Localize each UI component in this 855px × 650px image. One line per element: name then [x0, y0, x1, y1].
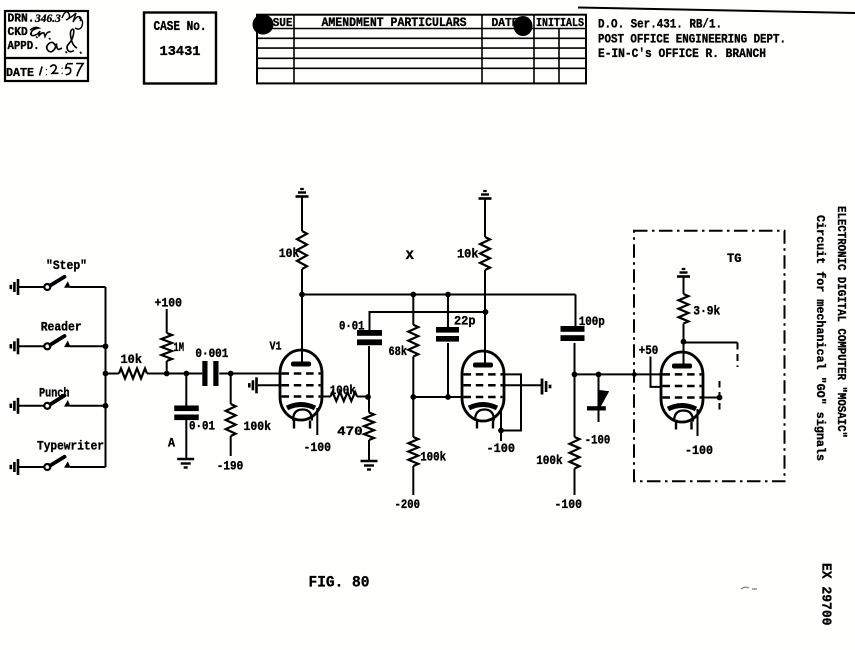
junction rail2 end — [483, 309, 489, 315]
svg-text:ELECTRONIC DIGITAL COMPUTER "M: ELECTRONIC DIGITAL COMPUTER "MOSAIC" — [834, 206, 848, 438]
wire cap to grid node — [219, 373, 280, 375]
wire marker to 10k — [301, 196, 303, 231]
title block DRN/CKD/APPD/DATE box — [5, 11, 88, 81]
svg-text:0·001: 0·001 — [195, 347, 228, 361]
resistor 68k — [408, 325, 418, 357]
junction grid leak — [228, 371, 234, 377]
V3 grid 1 — [663, 373, 702, 376]
wire 100k to -100 — [574, 469, 576, 496]
wire 1M to node — [166, 361, 168, 374]
svg-text:100k: 100k — [420, 451, 446, 465]
dashed test lead — [719, 381, 721, 414]
junction cathode network — [365, 394, 371, 400]
svg-text:Punch: Punch — [39, 387, 70, 401]
V1 grid2 point symbol — [248, 383, 251, 387]
switch Reader: fixed contact — [64, 341, 71, 348]
V1 heater — [293, 410, 312, 421]
svg-text:D.O. Ser.431. RB/1.: D.O. Ser.431. RB/1. — [598, 17, 722, 32]
switch Reader: input point symbol — [10, 344, 13, 348]
wire junction down to 100k — [412, 397, 414, 437]
V1 grid 3 — [282, 395, 321, 398]
svg-text:68k: 68k — [389, 345, 408, 359]
V3 cathode lead — [697, 409, 699, 436]
wire node down to 100k — [574, 374, 576, 437]
svg-text:CASE No.: CASE No. — [154, 20, 207, 35]
svg-text:+50: +50 — [639, 344, 659, 358]
junction bus/Reader — [103, 343, 109, 349]
wire 10k to node — [147, 373, 167, 375]
svg-text:"Step": "Step" — [46, 259, 87, 273]
handwritten CKD initials — [30, 27, 51, 39]
junction 22p bottom — [445, 394, 451, 400]
V3 grid 2 — [663, 385, 702, 388]
wire 10k down to V2 anode — [484, 270, 486, 364]
resistor 1M — [161, 333, 172, 361]
wire 22p to grid node — [447, 343, 449, 397]
V2 cathode — [469, 405, 497, 409]
V1 grid 2 — [282, 384, 321, 387]
V3 grid 3 — [663, 396, 702, 399]
wire node to 470 — [368, 397, 370, 413]
wire R to -190 — [230, 436, 232, 456]
ink blob over DATE — [514, 16, 533, 36]
grid wire to V2 — [413, 396, 463, 398]
svg-text:+100: +100 — [155, 297, 183, 311]
ink blob over ISSUE — [253, 15, 274, 35]
svg-text:EX 29700: EX 29700 — [818, 563, 834, 626]
svg-text:-100: -100 — [685, 444, 713, 458]
valve V1 envelope and anode — [280, 350, 322, 420]
V1 cathode — [287, 405, 315, 409]
capacitor 22p — [436, 327, 459, 333]
handwritten APPD signature a.b. — [47, 29, 82, 53]
valve V2 envelope and anode — [462, 351, 504, 421]
junction 1M/main — [164, 371, 170, 377]
rail1 corner down to 100p — [575, 295, 577, 328]
junction output crosses TG border — [632, 372, 637, 377]
V2 grid2 point symbol — [541, 379, 544, 395]
wire C 0.01 to earth — [185, 420, 187, 459]
V1 grid 1 — [282, 372, 321, 375]
svg-text:100k: 100k — [536, 454, 563, 468]
svg-text:0·01: 0·01 — [339, 320, 365, 334]
switch Reader: wire to pivot — [18, 345, 44, 347]
svg-text:3·9k: 3·9k — [693, 305, 720, 319]
switch Step: pivot circle — [44, 284, 50, 290]
wire 68k to grid line — [412, 357, 414, 398]
amendment table — [257, 15, 586, 84]
resistor 470 — [364, 413, 374, 441]
V2 cathode lead — [500, 408, 502, 441]
case number box — [144, 13, 216, 84]
top right slanted rule — [578, 8, 855, 14]
switch Typewriter: fixed contact — [64, 461, 71, 468]
valve V3 envelope and anode — [661, 352, 703, 422]
switch Punch: pivot circle — [44, 403, 50, 409]
HT marker above V1 anode resistor — [296, 195, 309, 198]
capacitor 100p — [561, 326, 585, 332]
junction V3 anode — [681, 339, 687, 345]
svg-text:346.3: 346.3 — [34, 13, 61, 25]
wire rail to 22p — [447, 295, 449, 328]
svg-text:V1: V1 — [270, 340, 282, 354]
svg-text:-100: -100 — [555, 498, 583, 512]
switch Punch: wire to bus — [70, 405, 106, 407]
wire 100p to node — [574, 343, 576, 375]
wire node up to C 0.01 — [368, 346, 370, 397]
V2 grid 3 — [464, 396, 503, 399]
wire 470 to earth — [368, 440, 370, 461]
switch Step: input point symbol — [10, 285, 13, 289]
svg-text:TG: TG — [727, 252, 742, 266]
svg-text:100k: 100k — [330, 384, 356, 398]
svg-text:470: 470 — [337, 425, 363, 439]
svg-text:FIG. 80: FIG. 80 — [309, 574, 370, 592]
HT marker above 10k (V2) — [479, 197, 492, 200]
switch Step: fixed contact — [64, 281, 71, 288]
stray pencil mark — [741, 587, 757, 589]
wire marker to 10k — [484, 198, 486, 237]
V3 cathode — [668, 406, 696, 410]
resistor 100k (to -200) — [408, 437, 418, 466]
capacitor 0.001 (coupling) — [202, 361, 207, 386]
wire C 0.01 up to rail2 — [369, 311, 371, 330]
svg-text:-100: -100 — [304, 441, 332, 455]
svg-text:Typewriter: Typewriter — [37, 440, 104, 454]
switch Punch: input point symbol — [10, 404, 13, 408]
junction bus/Punch — [103, 403, 109, 409]
wire 100k to node — [357, 396, 369, 398]
svg-text:DRN.: DRN. — [8, 13, 35, 26]
V2 grid 1 — [464, 373, 503, 376]
resistor 100k (V1 output) — [331, 392, 357, 401]
svg-text:100k: 100k — [244, 420, 272, 434]
rail 2 (to second anode) — [370, 311, 486, 313]
svg-text:-200: -200 — [395, 498, 421, 512]
wire node to diode — [598, 374, 600, 392]
wire V2 grid2 to point — [503, 384, 542, 386]
switch Step: blade — [50, 277, 64, 286]
switch Typewriter: blade — [50, 457, 64, 466]
V2 heater pins — [476, 420, 478, 429]
junction V1 anode/rail — [299, 292, 305, 298]
svg-text:100p: 100p — [579, 315, 605, 329]
handwritten 346.3 and signature — [34, 12, 83, 29]
switch Reader: wire to bus — [70, 345, 106, 347]
wire 10k to rail — [301, 269, 303, 295]
output wire to TG — [575, 373, 662, 375]
svg-text:10k: 10k — [457, 248, 479, 262]
V3 grid3 wire to test point — [702, 397, 720, 399]
svg-text:A: A — [168, 436, 175, 450]
wire point to V1 grid2 — [258, 384, 280, 386]
capacitor 0.01 (to earth) — [174, 406, 199, 412]
svg-text:22p: 22p — [454, 315, 476, 329]
V3 heater — [674, 411, 693, 422]
svg-text:13431: 13431 — [160, 45, 201, 60]
wire node to R 100k grid leak — [230, 374, 232, 405]
earth below 470 — [361, 460, 378, 463]
wire node to cap node — [167, 373, 203, 375]
wire rail to 68k — [412, 295, 414, 325]
junction 100p/output — [572, 372, 578, 378]
V2 grid 2 — [464, 384, 503, 387]
switch Reader: pivot circle — [44, 343, 50, 349]
switch Step: wire to pivot — [18, 286, 44, 288]
wire bus to R 10k — [106, 373, 120, 375]
junction feedback/cathode — [498, 428, 504, 434]
resistor 10k (series input) — [119, 369, 147, 379]
capacitor 0.01 (second) — [357, 330, 382, 336]
svg-text:INITIALS: INITIALS — [536, 17, 584, 30]
svg-text:1M: 1M — [174, 341, 185, 355]
wire 100k to -200 — [412, 466, 414, 495]
anode branch wire right — [684, 342, 738, 344]
junction rail1/68k — [410, 292, 416, 298]
junction diode tap — [596, 372, 602, 378]
TG dash-dot boundary — [634, 231, 785, 481]
svg-text:E-IN-C's OFFICE R. BRANCH: E-IN-C's OFFICE R. BRANCH — [598, 46, 766, 61]
resistor 10k (V1 anode) — [297, 231, 307, 269]
V1 heater pins — [293, 420, 295, 429]
svg-text:POST OFFICE ENGINEERING DEPT.: POST OFFICE ENGINEERING DEPT. — [598, 32, 786, 47]
switch Reader: blade — [50, 336, 64, 345]
junction rail1/22p — [445, 292, 451, 298]
anode rail 1 — [302, 294, 576, 296]
switch Typewriter: pivot circle — [44, 464, 50, 470]
earth below A — [177, 458, 194, 461]
diode (to -100) — [598, 390, 610, 407]
svg-text:AMENDMENT PARTICULARS: AMENDMENT PARTICULARS — [322, 15, 467, 30]
junction bus/output — [103, 371, 109, 377]
HT marker above 3.9k — [677, 275, 690, 278]
+50 feed wire — [651, 357, 663, 387]
switch Punch: blade — [50, 396, 64, 405]
junction 68k bottom — [410, 394, 416, 400]
switch Typewriter: wire to bus — [70, 466, 106, 468]
resistor 100k (grid leak) — [226, 404, 236, 436]
dashed drop from anode branch — [737, 343, 739, 368]
svg-text:-100: -100 — [585, 434, 611, 448]
switch bus vertical wire — [105, 287, 107, 467]
office heading text — [598, 17, 786, 62]
svg-text:0·01: 0·01 — [189, 420, 215, 434]
svg-text:-100: -100 — [487, 442, 516, 456]
wire rail to anode — [301, 295, 303, 364]
svg-text:DATE: DATE — [6, 66, 34, 80]
junction 0.01 tap — [183, 371, 189, 377]
handwritten date 1:2:57 — [40, 63, 84, 76]
V3 heater pins — [675, 421, 677, 430]
svg-text:-190: -190 — [217, 459, 244, 473]
svg-text:10k: 10k — [121, 353, 143, 367]
switch Punch: wire to pivot — [18, 405, 44, 407]
resistor 3.9k — [679, 294, 689, 324]
wire +100 to 1M — [166, 309, 168, 333]
switch Typewriter: wire to pivot — [18, 466, 44, 468]
wire 3.9k to anode — [683, 324, 685, 365]
svg-text:10k: 10k — [279, 247, 300, 261]
wire down to C 0.01 — [185, 374, 187, 407]
V2 heater — [475, 410, 494, 421]
svg-text:X: X — [406, 249, 415, 263]
wire V1 grid3 to 100k — [321, 396, 331, 398]
svg-text:Reader: Reader — [41, 321, 82, 335]
switch Step: wire to bus — [70, 286, 106, 288]
svg-text:Circuit for mechanical "GO" si: Circuit for mechanical "GO" signals — [813, 215, 827, 461]
junction test point — [717, 395, 723, 401]
switch Punch: fixed contact — [64, 400, 71, 407]
resistor 10k (V2 anode) — [480, 237, 490, 270]
switch Typewriter: input point symbol — [10, 465, 13, 469]
resistor 100k (output load) — [570, 437, 580, 469]
svg-text:APPD.: APPD. — [8, 40, 40, 53]
V1 cathode lead down — [316, 408, 318, 435]
wire marker to 3.9k — [683, 276, 685, 294]
V2 grid1 feedback loop wire — [501, 374, 521, 430]
